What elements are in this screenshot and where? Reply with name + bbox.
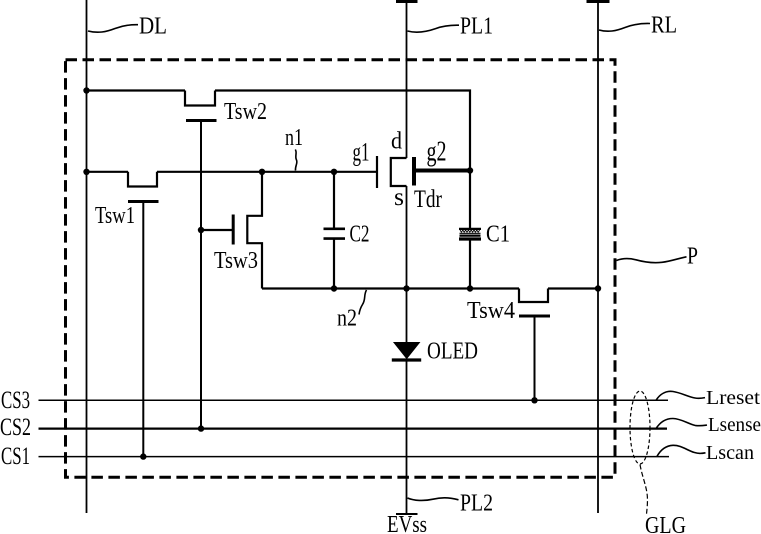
GLG leader curve xyxy=(640,465,647,515)
RL leader squiggle xyxy=(599,23,650,31)
transistor Tsw4 gate bar xyxy=(519,315,550,318)
transistor Tdr channel jog xyxy=(391,158,407,186)
transistor Tsw3 channel (vertical) xyxy=(247,172,262,289)
wire Tsw1 gate line down to CS1 xyxy=(142,202,144,457)
capacitor C1 middle plate xyxy=(460,235,481,237)
dashed pixel boundary P xyxy=(66,60,616,477)
svg-text:C2: C2 xyxy=(350,222,370,248)
wire RL reference line vertical xyxy=(597,0,599,513)
capacitor C1 bottom lead xyxy=(469,241,471,289)
wire g2 thick connection to C1 node xyxy=(414,169,470,173)
transistor Tsw4 channel notch xyxy=(519,289,548,303)
transistor Tsw3 gate bar xyxy=(232,215,235,245)
Lreset leader squiggle xyxy=(656,391,705,400)
svg-text:CS3: CS3 xyxy=(1,387,30,414)
wire PL1 lower segment (OLED to EVss) xyxy=(406,360,408,514)
svg-text:Lreset: Lreset xyxy=(706,387,760,409)
svg-text:CS1: CS1 xyxy=(1,443,30,470)
transistor Tsw2 drain wire to g2 node xyxy=(215,91,470,171)
transistor Tsw3 gate wire xyxy=(201,229,232,231)
PL2 leader squiggle xyxy=(408,498,459,501)
node n1 wire from DL xyxy=(87,171,129,173)
transistor Tsw1 channel notch xyxy=(128,172,157,187)
svg-text:EVss: EVss xyxy=(387,512,427,534)
svg-text:n1: n1 xyxy=(285,125,303,151)
transistor Tsw2 source wire from DL xyxy=(87,89,186,91)
svg-text:Tsw4: Tsw4 xyxy=(467,298,515,324)
capacitor C2 top lead xyxy=(333,172,335,228)
svg-text:GLG: GLG xyxy=(645,513,686,534)
Lscan leader squiggle xyxy=(657,445,706,456)
diode OLED anode triangle xyxy=(394,343,419,359)
wire n2 to RL xyxy=(548,287,598,289)
node n2 wire xyxy=(262,287,519,289)
svg-text:Lscan: Lscan xyxy=(706,442,754,464)
wire PL1 upper segment (drain side) xyxy=(406,0,408,158)
capacitor C1 bottom plate xyxy=(459,237,481,240)
capacitor C1 top lead xyxy=(469,171,471,229)
capacitor C2 bottom plate xyxy=(324,237,346,240)
op gate g1 bar of Tdr xyxy=(376,156,378,188)
GLG grouping dashed ellipse xyxy=(630,391,650,464)
svg-text:n2: n2 xyxy=(337,306,357,332)
svg-text:Lsense: Lsense xyxy=(708,414,761,436)
svg-text:d: d xyxy=(391,129,402,155)
svg-text:Tsw1: Tsw1 xyxy=(95,203,135,229)
svg-text:RL: RL xyxy=(651,13,677,39)
n1 leader squiggle xyxy=(295,150,297,171)
svg-text:PL1: PL1 xyxy=(460,14,493,40)
gate g2 bar of Tdr (thick) xyxy=(412,157,416,186)
Lsense leader squiggle xyxy=(656,418,707,428)
svg-text:OLED: OLED xyxy=(427,339,478,365)
svg-text:s: s xyxy=(394,184,404,211)
svg-text:g2: g2 xyxy=(427,136,447,167)
svg-text:Tdr: Tdr xyxy=(414,186,443,213)
wire CS2 control line xyxy=(39,428,668,430)
wire RL reference line top terminal bar xyxy=(587,0,610,3)
capacitor C2 top plate xyxy=(324,228,346,231)
node n1 wire to Tdr gate g1 xyxy=(157,171,377,173)
wire PL1 mid segment (source side to OLED) xyxy=(406,186,408,343)
transistor Tsw2 gate bar xyxy=(186,119,217,122)
DL leader squiggle xyxy=(88,25,138,33)
wire Tsw2 gate line down to CS2 xyxy=(200,121,202,429)
wire CS1 control line xyxy=(39,456,670,458)
n2 leader squiggle xyxy=(359,290,367,315)
diode OLED cathode bar xyxy=(392,358,421,361)
svg-text:Tsw3: Tsw3 xyxy=(214,248,258,274)
svg-text:P: P xyxy=(687,244,698,270)
wire DL data line vertical xyxy=(86,0,88,513)
svg-text:PL2: PL2 xyxy=(460,491,493,517)
transistor Tsw2 channel notch xyxy=(185,91,215,106)
svg-text:g1: g1 xyxy=(353,137,370,166)
junction dots xyxy=(83,87,89,93)
PL1 leader squiggle xyxy=(408,25,460,32)
EVss terminal bar on PL2 xyxy=(396,513,418,515)
svg-text:CS2: CS2 xyxy=(0,414,31,441)
capacitor C2 bottom lead xyxy=(333,240,335,289)
wire CS3 control line xyxy=(39,399,669,401)
capacitor C1 serrated top plate xyxy=(459,228,481,230)
svg-text:DL: DL xyxy=(139,14,167,40)
svg-text:Tsw2: Tsw2 xyxy=(224,99,267,125)
P leader squiggle xyxy=(617,257,687,263)
wire Tsw4 gate line down to CS3 xyxy=(534,316,536,400)
transistor Tsw1 gate bar xyxy=(128,200,159,203)
svg-text:C1: C1 xyxy=(486,222,510,248)
capacitor C1 middle thin plate xyxy=(460,232,481,234)
wire PL1 power line top terminal bar xyxy=(396,0,418,3)
